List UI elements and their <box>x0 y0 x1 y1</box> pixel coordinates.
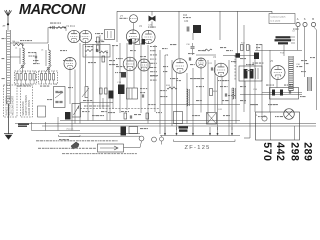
svg-text:B: B <box>312 17 314 21</box>
svg-text:ZF-125: ZF-125 <box>185 145 211 151</box>
svg-text:S: S <box>304 17 306 21</box>
svg-text:R13: R13 <box>183 15 188 17</box>
svg-text:570: 570 <box>261 142 273 161</box>
svg-text:chassis: chassis <box>66 129 74 131</box>
svg-text:V3: V3 <box>165 53 169 57</box>
svg-text:298: 298 <box>288 142 300 161</box>
svg-text:C30: C30 <box>184 21 189 23</box>
svg-text:MARCONI: MARCONI <box>19 2 86 18</box>
svg-text:MEDIUM SHORT: MEDIUM SHORT <box>12 95 15 115</box>
svg-text:289: 289 <box>301 142 313 161</box>
svg-text:Connect switch: Connect switch <box>271 16 287 19</box>
svg-text:A: A <box>297 17 299 21</box>
svg-text:to 1 and 2: to 1 and 2 <box>271 20 282 23</box>
svg-text:R1 1M: R1 1M <box>13 42 19 44</box>
svg-text:V1 FC4: V1 FC4 <box>66 24 75 28</box>
svg-text:GRAM POSN: GRAM POSN <box>28 100 31 115</box>
svg-text:442: 442 <box>274 142 286 161</box>
